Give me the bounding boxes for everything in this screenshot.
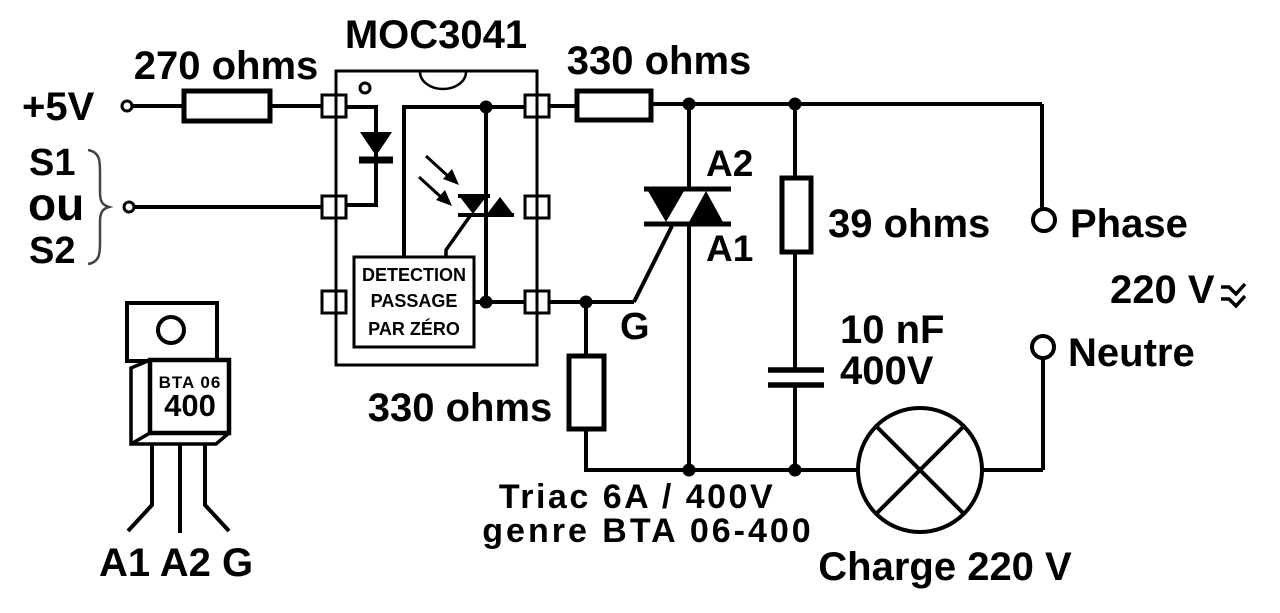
- wire detection to pin4: [474, 300, 525, 304]
- node triac top: [683, 98, 696, 111]
- svg-text:39 ohms: 39 ohms: [828, 202, 990, 246]
- phototriac bottom bar: [458, 213, 514, 217]
- wire gate to R3: [584, 302, 588, 356]
- svg-text:400: 400: [164, 388, 216, 423]
- svg-text:Triac 6A / 400V: Triac 6A / 400V: [499, 478, 775, 516]
- resistor R3 330 ohms: [569, 356, 604, 429]
- svg-text:Neutre: Neutre: [1068, 331, 1195, 375]
- wire R1 to pin1: [270, 104, 322, 108]
- node gate: [580, 296, 593, 309]
- phototriac top bar: [458, 194, 490, 198]
- light arrow 1: [426, 156, 449, 177]
- pin box 2: [322, 196, 346, 218]
- TO220 leg A2: [178, 444, 182, 533]
- LED cathode bar: [359, 157, 393, 164]
- wire neutre drop: [1041, 358, 1045, 470]
- svg-text:A1: A1: [706, 228, 753, 269]
- triac top bar: [644, 187, 731, 192]
- TO220 hole: [158, 317, 184, 343]
- wire R4 to cap: [793, 252, 797, 368]
- resistor R4 39 ohms: [782, 178, 811, 252]
- light arrow 2: [419, 177, 442, 198]
- capacitor C1 plate top: [768, 367, 824, 373]
- svg-text:S2: S2: [29, 230, 75, 272]
- wire triac A1 to rail: [687, 224, 691, 470]
- wire neutre to lamp: [982, 468, 1043, 472]
- wire detector supply: [404, 107, 525, 257]
- pin box 6: [525, 95, 549, 117]
- pin box 1: [322, 95, 346, 117]
- lamp cross 2: [876, 426, 964, 514]
- pin box 4: [525, 291, 549, 313]
- triac bottom bar: [644, 222, 731, 227]
- wire phototriac vertical: [484, 107, 488, 302]
- svg-text:+5V: +5V: [22, 85, 95, 129]
- wire top rail: [651, 102, 1042, 106]
- svg-text:220 V: 220 V: [1110, 268, 1215, 312]
- AC waves symbol: [1221, 284, 1245, 294]
- svg-text:genre BTA 06-400: genre BTA 06-400: [482, 512, 813, 550]
- phototriac left triangle: [460, 197, 486, 214]
- triac right triangle: [689, 191, 723, 222]
- lamp cross 1: [876, 426, 964, 514]
- wire phase drop: [1040, 104, 1044, 208]
- wire +5V to R1: [132, 104, 184, 108]
- pin box 3: [322, 291, 346, 313]
- svg-text:A2: A2: [706, 143, 753, 184]
- notch: [420, 72, 466, 89]
- node phototriac top: [480, 101, 493, 114]
- svg-text:DETECTION: DETECTION: [362, 265, 466, 285]
- wire pin4 to gate node: [549, 300, 634, 304]
- wire bottom rail: [584, 468, 858, 472]
- svg-text:G: G: [620, 306, 650, 348]
- wire cap to rail: [793, 387, 797, 470]
- wire pin6 to R2: [549, 104, 577, 108]
- node phototriac bottom: [480, 296, 493, 309]
- capacitor C1 plate bottom: [768, 382, 824, 388]
- wire LED anode: [346, 107, 376, 205]
- svg-text:ou: ou: [28, 178, 84, 230]
- node triac bottom: [683, 464, 696, 477]
- pin box 5: [525, 196, 549, 218]
- node snubber bottom: [789, 464, 802, 477]
- wire gate diagonal: [634, 226, 672, 302]
- svg-text:PAR ZÉRO: PAR ZÉRO: [368, 318, 460, 339]
- brace S1/S2: [88, 150, 109, 264]
- TO220 body front: [150, 360, 229, 433]
- diode LED: [360, 132, 392, 156]
- zero-cross detection box: [354, 257, 474, 347]
- svg-text:PASSAGE: PASSAGE: [371, 291, 458, 311]
- triac left triangle: [648, 191, 684, 222]
- resistor R2 330 ohms: [577, 91, 651, 120]
- phototriac right triangle: [487, 197, 513, 214]
- svg-text:330 ohms: 330 ohms: [368, 386, 553, 430]
- resistor R1 270 ohms: [184, 91, 270, 121]
- wire snubber R top: [793, 104, 797, 178]
- terminal Neutre: [1032, 336, 1054, 358]
- svg-text:400V: 400V: [840, 349, 934, 393]
- node snubber top: [789, 98, 802, 111]
- svg-text:270 ohms: 270 ohms: [134, 44, 319, 88]
- terminal Phase: [1033, 209, 1055, 231]
- svg-text:10 nF: 10 nF: [840, 308, 944, 352]
- wire R3 to rail: [584, 429, 588, 470]
- TO220 leg A1: [128, 444, 152, 531]
- lamp circle: [858, 408, 982, 532]
- terminal S: [124, 202, 134, 212]
- TO220 leg G: [205, 444, 229, 531]
- wire phototriac gate: [446, 216, 470, 257]
- terminal +5V: [122, 101, 132, 111]
- pin1 dot: [360, 83, 370, 93]
- TO220 body 3d: [131, 360, 229, 444]
- TO220 tab: [127, 303, 217, 361]
- svg-text:A1 A2 G: A1 A2 G: [99, 541, 253, 585]
- svg-text:Phase: Phase: [1070, 202, 1188, 246]
- svg-text:Charge 220 V: Charge 220 V: [818, 545, 1072, 589]
- op-to U1 MOC3041 body: [336, 71, 537, 365]
- svg-text:330 ohms: 330 ohms: [567, 39, 752, 83]
- wire S to pin2: [134, 205, 322, 209]
- svg-text:MOC3041: MOC3041: [345, 13, 527, 57]
- wire triac A2: [687, 104, 691, 189]
